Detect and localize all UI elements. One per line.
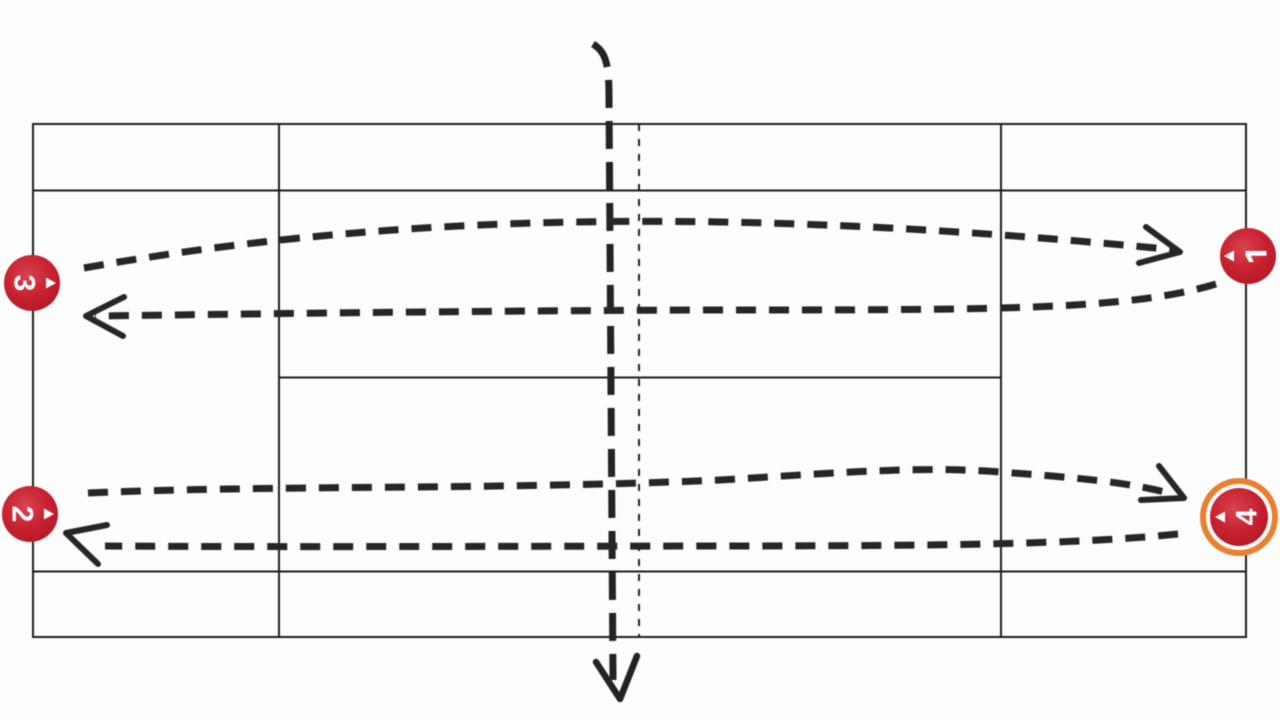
player marker 1	[1220, 228, 1276, 284]
court outer boundary	[33, 124, 1246, 637]
arrowhead top left	[86, 297, 124, 336]
svg-text:2: 2	[6, 506, 39, 523]
path player 1 back to 3 (top return)	[95, 284, 1216, 316]
arrowhead bottom right	[1141, 466, 1184, 500]
bottom service line	[33, 571, 1246, 573]
thin dashed center line	[638, 124, 640, 636]
player marker 2	[2, 486, 58, 542]
left sideline (inner vertical)	[278, 124, 280, 636]
svg-text:3: 3	[8, 275, 41, 292]
right sideline (inner vertical)	[1000, 124, 1002, 636]
path player 2 to 4 (bottom outbound)	[88, 470, 1172, 494]
thick dashed net line	[593, 44, 613, 680]
player marker 3	[4, 255, 60, 311]
path player 3 to 1 (top outbound)	[84, 221, 1176, 268]
net line bottom arrowhead	[596, 656, 637, 699]
player marker 4 (selected, orange ring)	[1203, 481, 1275, 553]
svg-text:4: 4	[1231, 508, 1264, 525]
arrowhead top right	[1139, 227, 1180, 263]
arrowhead bottom left	[66, 525, 107, 564]
top service line	[33, 190, 1246, 192]
center service line (partial)	[279, 377, 1001, 379]
path player 4 back to 2 (bottom return)	[105, 534, 1178, 547]
